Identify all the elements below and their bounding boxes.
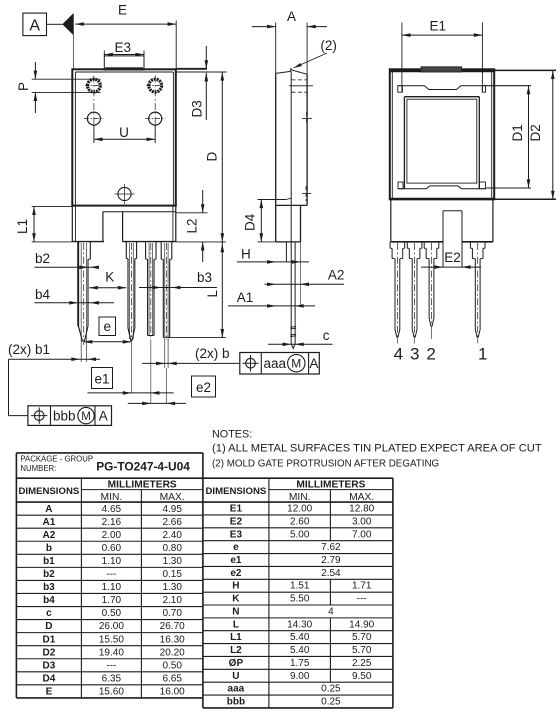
back view: body inner offset lines	[391, 71, 393, 198]
svg-text:7.62: 7.62	[321, 542, 341, 553]
leader from b1 dimension to bbb tolerance frame	[8, 359, 10, 415]
svg-text:2.16: 2.16	[102, 517, 122, 528]
dimension D3: outside arrows	[205, 46, 207, 69]
front view: top mold tab	[104, 56, 144, 70]
svg-text:e2: e2	[196, 380, 211, 395]
svg-text:A2: A2	[328, 268, 345, 283]
tolerance frame bbb: position symbol	[34, 411, 44, 421]
dimension e2: dimension line, converging arrows	[128, 402, 186, 404]
svg-text:9.50: 9.50	[352, 671, 372, 682]
front view: bottom center hole	[118, 187, 131, 200]
dimension E3: extension lines	[103, 51, 105, 58]
dimension D2: dimension line and arrows	[552, 70, 554, 199]
front view: datum A symbol box	[23, 13, 47, 35]
back view: top mold bump (hatched)	[421, 67, 462, 72]
dimension K: dimension line and arrows	[89, 287, 126, 289]
svg-text:c: c	[323, 328, 330, 343]
front view: step line extension right	[176, 212, 208, 214]
svg-text:3: 3	[410, 345, 419, 364]
svg-text:0.80: 0.80	[162, 543, 182, 554]
front view: body outline	[72, 69, 176, 205]
svg-text:1.30: 1.30	[162, 582, 182, 593]
svg-text:E3: E3	[114, 40, 131, 55]
svg-text:MILLIMETERS: MILLIMETERS	[108, 480, 177, 491]
dimension L1: extension lines	[32, 205, 73, 207]
front view: pin C centre wire extension	[150, 340, 152, 403]
svg-text:---: ---	[357, 594, 367, 605]
front view: pin B inner thin-width lines	[129, 243, 131, 339]
side view: right edge (upper)	[306, 74, 308, 205]
back view pin 4: shoulder	[391, 248, 393, 258]
back view: metal pad outer outline	[404, 96, 479, 98]
svg-text:U: U	[232, 671, 239, 682]
front view: pin A inner thin-width lines	[80, 243, 82, 362]
svg-text:P: P	[16, 82, 31, 91]
svg-text:aaa: aaa	[228, 684, 245, 695]
svg-text:b2: b2	[43, 569, 55, 580]
svg-text:0.50: 0.50	[162, 660, 182, 671]
front view: top-right mounting hole (hatched ring)	[149, 79, 162, 92]
svg-text:0.60: 0.60	[102, 543, 122, 554]
side view: body outline left edge	[275, 73, 277, 242]
svg-text:M: M	[81, 411, 91, 423]
svg-text:D2: D2	[43, 647, 56, 658]
svg-text:19.40: 19.40	[99, 647, 124, 658]
svg-text:MAX.: MAX.	[160, 492, 185, 503]
svg-text:(2): (2)	[320, 38, 337, 53]
svg-text:14.30: 14.30	[287, 619, 312, 630]
svg-text:(2) MOLD GATE PROTRUSION AFTER: (2) MOLD GATE PROTRUSION AFTER DEGATING	[212, 458, 439, 469]
dimension E: dimension line and arrows	[75, 23, 176, 25]
svg-text:L: L	[205, 290, 220, 298]
svg-text:MILLIMETERS: MILLIMETERS	[296, 480, 365, 491]
svg-text:H: H	[241, 247, 251, 262]
front view: flange below body	[71, 206, 73, 242]
dimension A2: dimension line and arrows	[265, 283, 344, 285]
svg-text:e1: e1	[230, 555, 242, 566]
front view: top-left mounting hole (hatched ring)	[88, 79, 101, 92]
svg-text:12.80: 12.80	[349, 504, 374, 515]
svg-text:NUMBER:: NUMBER:	[20, 464, 56, 473]
svg-text:5.70: 5.70	[352, 632, 372, 643]
svg-text:(2x) b: (2x) b	[195, 346, 230, 361]
svg-text:D3: D3	[43, 660, 56, 671]
svg-text:L2: L2	[230, 645, 242, 656]
svg-text:D4: D4	[243, 213, 258, 231]
pin C (front view third lead, cut)	[145, 242, 147, 260]
front view: body inner offset lines	[75, 71, 173, 73]
svg-text:E2: E2	[230, 516, 243, 527]
back view: body outline	[390, 69, 494, 199]
svg-text:1.75: 1.75	[290, 658, 310, 669]
dimension E3: dimension line and arrows	[104, 54, 144, 56]
svg-text:2.60: 2.60	[290, 516, 310, 527]
front view: flange slot (notch)	[102, 212, 104, 242]
svg-text:2.00: 2.00	[102, 530, 122, 541]
svg-text:4.65: 4.65	[102, 504, 122, 515]
svg-text:K: K	[232, 594, 240, 605]
svg-text:bbb: bbb	[53, 408, 76, 423]
side view: hole row 2 centerline tick	[302, 118, 312, 120]
pin A (front view leftmost lead)	[77, 242, 79, 326]
dimension D1: dimension line and arrows	[528, 86, 530, 188]
svg-text:D: D	[45, 621, 52, 632]
dimension H: dimension line and arrows	[237, 261, 309, 263]
svg-text:e: e	[233, 542, 239, 553]
back view pin 3: shoulder	[408, 248, 410, 258]
side view: metal tab back edge	[300, 205, 302, 242]
svg-text:0.70: 0.70	[162, 608, 182, 619]
back view pin 3: centerline	[414, 243, 416, 338]
back view pin 3: stub	[406, 242, 408, 249]
back view pin 1: leg	[474, 259, 476, 330]
left dimension table: grid	[16, 452, 203, 454]
dimension P: tangent extension lines	[32, 78, 101, 80]
pin D (front view rightmost lead, cut)	[160, 242, 162, 260]
svg-text:e2: e2	[230, 568, 242, 579]
side view: hidden hole lines (top row)	[292, 79, 308, 81]
dimension A1: dimension line and arrows	[228, 305, 315, 307]
dimension L2: outside arrows	[202, 190, 204, 213]
back view pin 4: end wire	[396, 338, 398, 344]
svg-text:E3: E3	[230, 529, 243, 540]
front view: hole centerline verticals	[93, 76, 95, 144]
back view pin 2: centerline	[431, 243, 433, 327]
front view: pin D thin extension lines	[164, 243, 166, 368]
back view: bottom corner tabs	[398, 182, 403, 189]
svg-text:e: e	[103, 319, 111, 334]
tolerance frame bbb: M-circle modifier	[78, 407, 94, 423]
back view pin 2: taper tip	[429, 318, 431, 327]
side view: inner vertical line	[290, 71, 292, 242]
svg-text:2.54: 2.54	[321, 568, 341, 579]
dimension D4: extension lines	[258, 199, 287, 201]
svg-text:E: E	[118, 3, 127, 18]
dimension E1: dimension line and arrows	[402, 34, 483, 36]
dimension P: outside arrows	[34, 62, 36, 79]
svg-text:A2: A2	[43, 530, 56, 541]
dimension D4: dimension line and arrows	[260, 200, 262, 242]
svg-text:2.66: 2.66	[162, 517, 182, 528]
svg-text:NOTES:: NOTES:	[212, 429, 252, 441]
svg-text:L1: L1	[230, 632, 242, 643]
back view: flange	[390, 199, 392, 242]
front view: flange bottom extension right	[176, 241, 226, 243]
svg-text:16.30: 16.30	[160, 634, 185, 645]
svg-text:1.10: 1.10	[102, 582, 122, 593]
side view: lead plating boundary marks	[290, 326, 296, 329]
svg-text:1: 1	[478, 345, 487, 364]
front view: top edge extension lines to the right	[176, 68, 207, 70]
back view: flange center notch	[443, 210, 462, 212]
back view: body bottom edge thick band	[390, 198, 494, 200]
svg-text:b4: b4	[35, 287, 51, 302]
back view pin 1: stub	[469, 242, 471, 249]
svg-text:5.50: 5.50	[290, 594, 310, 605]
svg-text:E1: E1	[230, 504, 243, 515]
back view: pad bottom line with notch	[398, 186, 486, 189]
dimension E1: extension lines	[401, 23, 403, 92]
back view: top recess line with gate notch	[398, 86, 486, 90]
svg-text:2: 2	[426, 345, 435, 364]
svg-text:E2: E2	[444, 250, 461, 265]
front view: pin C inner thin-width lines	[148, 243, 150, 336]
side view: lead wide-part line	[285, 242, 287, 262]
svg-text:MIN.: MIN.	[289, 492, 311, 503]
svg-text:7.00: 7.00	[352, 529, 372, 540]
dimension b2: dimension line, converging arrows	[35, 266, 97, 268]
back view pin 4: centerline	[396, 243, 398, 338]
svg-text:L: L	[233, 619, 239, 630]
svg-text:0.50: 0.50	[102, 608, 122, 619]
svg-text:1.70: 1.70	[102, 595, 122, 606]
svg-text:b2: b2	[35, 251, 50, 266]
svg-text:b4: b4	[43, 595, 55, 606]
svg-text:DIMENSIONS: DIMENSIONS	[19, 486, 80, 497]
svg-text:E: E	[46, 687, 53, 698]
svg-text:3.00: 3.00	[352, 516, 372, 527]
svg-text:A: A	[309, 356, 318, 371]
svg-text:PACKAGE - GROUP: PACKAGE - GROUP	[20, 455, 93, 464]
svg-text:(1) ALL METAL SURFACES TIN PLA: (1) ALL METAL SURFACES TIN PLATED EXPECT…	[212, 442, 542, 454]
back view pin 2: leg	[428, 259, 430, 318]
svg-text:b3: b3	[43, 582, 55, 593]
svg-text:20.20: 20.20	[160, 647, 185, 658]
svg-text:6.65: 6.65	[162, 673, 182, 684]
svg-text:---: ---	[106, 569, 116, 580]
dimension E2: dimension line, converging arrows	[421, 266, 481, 268]
svg-text:12.00: 12.00	[287, 504, 312, 515]
back view pin 3: taper tip	[412, 330, 414, 338]
back view: pad inner outline	[407, 99, 477, 183]
side view: flange bottom	[276, 241, 301, 243]
back view pin 4: stub	[389, 242, 391, 249]
svg-text:0.25: 0.25	[321, 697, 341, 708]
svg-text:D4: D4	[43, 673, 56, 684]
svg-text:PG-TO247-4-U04: PG-TO247-4-U04	[96, 460, 190, 474]
svg-text:2.10: 2.10	[162, 595, 182, 606]
back view pin 4: taper tip	[395, 330, 397, 338]
svg-text:D1: D1	[43, 634, 56, 645]
back view pin 1: centerline	[477, 243, 479, 338]
svg-text:1.10: 1.10	[102, 556, 122, 567]
svg-text:2.79: 2.79	[321, 555, 341, 566]
svg-text:16.00: 16.00	[160, 687, 185, 698]
svg-text:A: A	[287, 9, 296, 24]
svg-text:26.70: 26.70	[160, 621, 185, 632]
svg-text:L2: L2	[185, 218, 200, 233]
front view: pin A centerline	[83, 243, 85, 345]
svg-text:15.60: 15.60	[99, 687, 124, 698]
svg-text:A: A	[99, 408, 108, 423]
back view: body top edge thick band	[390, 70, 494, 73]
tolerance frame bbb: frame box	[28, 406, 112, 426]
right dimension table: grid	[203, 477, 393, 479]
svg-text:---: ---	[106, 660, 116, 671]
back view pin 3: end wire	[414, 338, 416, 344]
side view: bottom hole centerline tick	[302, 192, 311, 194]
svg-text:1.71: 1.71	[352, 581, 372, 592]
dimension L1: dimension line and arrows	[33, 206, 35, 242]
back view pin 2: end wire	[431, 327, 433, 340]
svg-text:0.25: 0.25	[321, 684, 341, 695]
svg-text:bbb: bbb	[227, 697, 245, 708]
svg-text:c: c	[46, 608, 52, 619]
front view: pin B centerline	[130, 243, 132, 341]
svg-text:D1: D1	[510, 124, 525, 141]
dimension b4: dimension line, converging arrows	[35, 302, 115, 304]
dimension L: dimension line and arrows	[221, 242, 223, 338]
svg-text:M: M	[291, 357, 301, 371]
svg-text:5.40: 5.40	[290, 632, 310, 643]
svg-text:5.70: 5.70	[352, 645, 372, 656]
front view: second-row right hole	[149, 112, 162, 125]
svg-text:(2x) b1: (2x) b1	[8, 342, 50, 357]
dimension c: dimension line and arrows	[268, 343, 333, 345]
dimension A: extension lines	[275, 23, 277, 74]
front view: second-row left hole	[87, 112, 100, 125]
svg-text:4.95: 4.95	[162, 504, 182, 515]
pin B (front view second lead)	[125, 242, 127, 259]
front view: pin D centre wire extension	[166, 368, 168, 403]
svg-text:14.90: 14.90	[349, 619, 374, 630]
dimension D2: extension lines	[494, 69, 556, 71]
svg-text:D: D	[205, 152, 220, 162]
svg-text:aaa: aaa	[264, 356, 287, 371]
dimension A: dimension line, outside arrows	[252, 26, 276, 28]
svg-text:b3: b3	[197, 270, 212, 285]
dimension E: extension lines	[73, 14, 75, 70]
tolerance frame aaa: M-circle modifier	[288, 355, 305, 372]
svg-text:1.51: 1.51	[290, 581, 310, 592]
front view: flange step line	[103, 211, 176, 213]
side view: tab back extension line down	[300, 242, 302, 307]
svg-text:1.30: 1.30	[162, 556, 182, 567]
dimension e2: boxed label	[192, 376, 216, 397]
svg-text:E1: E1	[429, 19, 446, 34]
svg-text:K: K	[105, 270, 114, 285]
front view: pin A taper tip	[78, 326, 82, 342]
svg-text:26.00: 26.00	[99, 621, 124, 632]
back view pin 4: leg	[394, 259, 396, 330]
svg-text:b1: b1	[43, 556, 55, 567]
svg-text:9.00: 9.00	[290, 671, 310, 682]
back view pin 1: shoulder	[471, 248, 473, 258]
svg-text:6.35: 6.35	[102, 673, 122, 684]
svg-text:A1: A1	[237, 290, 254, 305]
back view pin 2: stub	[423, 242, 425, 249]
front view: datum A filled triangle	[62, 13, 73, 35]
svg-text:2.25: 2.25	[352, 658, 372, 669]
note (2) leader arrow	[294, 53, 327, 68]
svg-text:4: 4	[394, 345, 403, 364]
front view: datum A leader line	[47, 23, 63, 25]
dimension D1: extension lines	[486, 85, 532, 87]
dimension e1: dimension line, converging arrows	[88, 392, 174, 394]
svg-text:H: H	[232, 581, 239, 592]
svg-text:D2: D2	[528, 124, 543, 141]
svg-text:b: b	[46, 543, 52, 554]
svg-text:L1: L1	[15, 219, 30, 234]
front view: pin tip extension line	[168, 337, 226, 339]
svg-text:D3: D3	[190, 100, 205, 117]
tolerance frame aaa: position symbol cell	[240, 353, 319, 375]
front view: pin B taper tip	[128, 328, 131, 341]
dimension e: dimension line and arrows	[84, 341, 132, 343]
side view: top chamfer and mold gate protrusion	[276, 71, 291, 73]
svg-text:5.40: 5.40	[290, 645, 310, 656]
side view: lead front/back lines	[290, 242, 292, 344]
back view: top corner tabs	[398, 86, 403, 93]
svg-text:A: A	[29, 18, 40, 35]
svg-text:U: U	[119, 125, 129, 140]
svg-text:15.50: 15.50	[99, 634, 124, 645]
dimension (2x) b1: dimension line, converging arrows	[9, 358, 101, 360]
back view pin 1: end wire	[477, 338, 479, 344]
side view: body bottom edge	[276, 204, 307, 206]
dimension U: extension lines	[93, 125, 95, 143]
dimension D: dimension line and arrows	[221, 72, 223, 242]
dimension e1: boxed label	[92, 368, 113, 389]
side view: lead tip	[291, 344, 295, 348]
svg-text:MAX.: MAX.	[349, 492, 374, 503]
svg-text:A1: A1	[43, 517, 56, 528]
dimension (2x) b: dimension line, converging arrows	[142, 362, 240, 364]
svg-text:4: 4	[328, 606, 334, 617]
dimension b3: dimension line, converging arrows	[139, 287, 217, 289]
back view pin 1: taper tip	[475, 330, 477, 338]
svg-text:ØP: ØP	[229, 658, 244, 669]
svg-text:2.40: 2.40	[162, 530, 182, 541]
svg-text:MIN.: MIN.	[101, 492, 123, 503]
front view: pin B centre wire extension	[130, 341, 132, 393]
svg-text:0.15: 0.15	[162, 569, 182, 580]
back view pin 2: shoulder	[425, 248, 427, 258]
svg-text:A: A	[45, 504, 52, 515]
svg-text:e1: e1	[94, 372, 109, 387]
dimension U: dimension line and arrows	[94, 138, 155, 140]
svg-text:5.00: 5.00	[290, 529, 310, 540]
back view pin 3: leg	[411, 259, 413, 330]
dimension e: boxed label	[99, 317, 116, 336]
svg-text:N: N	[232, 606, 239, 617]
svg-text:DIMENSIONS: DIMENSIONS	[206, 486, 267, 497]
